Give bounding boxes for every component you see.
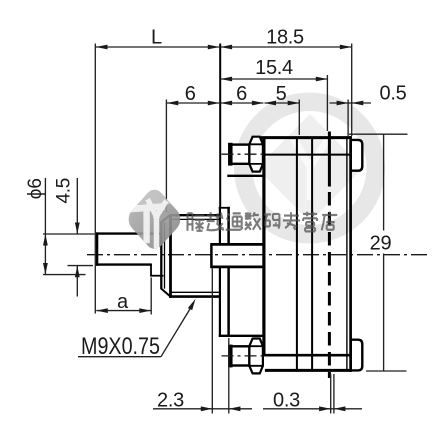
shaft boss band top <box>211 243 263 246</box>
dimension a line <box>96 310 151 312</box>
body inner top line <box>263 154 351 156</box>
bushing chamfer top <box>161 215 171 223</box>
extension line 18.5 right <box>351 44 353 137</box>
shaft full-dia bottom line <box>150 275 163 277</box>
dimension phi6 vertical line <box>44 178 46 275</box>
dimension 2.3 left segment <box>153 408 212 410</box>
svg-text:6: 6 <box>185 83 196 105</box>
dimension a arrows <box>96 308 108 313</box>
body internal wall 1 <box>296 137 298 371</box>
dimension 4.5 flat tick <box>68 265 94 267</box>
dimension 15.4 arrows <box>221 77 233 82</box>
mounting plate front face upper <box>219 207 221 244</box>
svg-text:M9X0.75: M9X0.75 <box>81 333 160 360</box>
mounting plate front face lower <box>219 268 221 337</box>
dimension 0.5 mid <box>348 102 352 104</box>
shaft flat step <box>150 264 152 277</box>
dimension 4.5 lower arrow (points up) <box>75 266 80 278</box>
watermark big diamond <box>257 114 363 222</box>
body thin line near back <box>346 137 348 371</box>
dimension 4.5 vertical upper segment <box>76 178 78 234</box>
dimension 29 vertical line lower <box>383 254 385 371</box>
svg-text:15.4: 15.4 <box>255 57 293 79</box>
frame upper flange below top bolt <box>227 175 263 177</box>
centerline bottom bolt <box>222 355 268 357</box>
body bottom edge <box>265 369 351 372</box>
dimension 0.5 left arrow (points right) <box>337 101 349 106</box>
dimension 6 first arrows <box>167 101 179 106</box>
extension line 2.3 right (plate back) <box>228 338 230 414</box>
extension line 6 first left <box>165 100 167 213</box>
dimension 5 line <box>265 102 300 104</box>
dimension 15.4 line <box>221 78 328 80</box>
dimension 4.5 upper arrow (points down) <box>75 223 80 235</box>
svg-text:2.3: 2.3 <box>157 389 184 411</box>
dimension phi6 text <box>25 178 46 199</box>
dimension 0.3 right segment <box>334 408 362 410</box>
extension line 29 bottom <box>366 370 407 372</box>
extension line 5 right <box>298 100 300 136</box>
rear cover top tab <box>351 140 363 171</box>
dimension 2.3 right segment <box>229 408 252 410</box>
bottom bolt hex facet lines <box>249 346 263 366</box>
dimension phi6 tick bottom <box>43 274 86 276</box>
shaft boss band bottom <box>211 265 263 268</box>
svg-text:29: 29 <box>370 233 392 255</box>
mounting plate back face upper <box>227 207 230 244</box>
bushing thread inner bottom <box>170 291 220 293</box>
dimension L arrows <box>96 45 108 50</box>
svg-text:18.5: 18.5 <box>266 27 304 49</box>
shaft boss band left face <box>210 243 213 268</box>
dimension 0.5 left segment <box>330 102 349 104</box>
top bolt hex facet lines <box>249 144 263 164</box>
dimension 2.3 left arrow (points right) <box>201 406 213 411</box>
dimension 2.3 right arrow (points left) <box>229 406 241 411</box>
dimension 2.3 mid <box>212 408 229 410</box>
body inner bottom line <box>260 354 351 357</box>
shaft left face <box>96 232 98 265</box>
watermark TY logo letters <box>131 202 165 247</box>
shaft top line <box>96 232 163 234</box>
dimension 4.5 text <box>54 178 75 204</box>
extension line 0.3 left <box>330 374 332 414</box>
svg-text:6: 6 <box>236 83 247 105</box>
front mounting face extension line (top) <box>219 44 221 209</box>
bushing tip face <box>160 222 162 289</box>
mounting plate back face lower <box>227 268 230 337</box>
bushing outer bottom <box>169 295 220 298</box>
mounting plate top cap <box>219 207 230 209</box>
body internal wall 2 <box>311 137 313 371</box>
rear cover bottom tab <box>351 340 363 371</box>
body front face <box>262 137 265 356</box>
body back edge <box>349 136 352 372</box>
bottom bolt hex <box>249 339 263 374</box>
dimension 5 arrows <box>265 101 277 106</box>
watermark big ring <box>243 102 376 235</box>
bushing outer top <box>169 214 220 216</box>
extension line a right <box>150 278 152 315</box>
dimension 0.3 left arrow (points right) <box>319 406 331 411</box>
extension line 15.4 right <box>326 75 328 131</box>
svg-text:a: a <box>117 291 129 313</box>
dimension 18.5 line <box>221 46 352 48</box>
svg-text:5: 5 <box>276 83 287 105</box>
svg-text:4.5: 4.5 <box>54 178 75 204</box>
M9X0.75 leader arrow <box>188 299 196 310</box>
bushing rear face vertical <box>169 214 172 298</box>
watermark chinese text (hand-drawn glyphs) <box>188 212 338 232</box>
centerline main axis <box>87 254 431 256</box>
mounting plate bottom cap / frame lower flange <box>219 335 264 337</box>
dimension phi6 arrows <box>43 234 48 246</box>
centerline top bolt <box>222 153 268 155</box>
dimension 6 first line <box>167 102 220 104</box>
top bolt head <box>230 145 249 164</box>
extension line 0.5 left <box>347 100 349 137</box>
dimension 18.5 arrows <box>221 45 233 50</box>
dimension 0.5 right segment <box>352 102 371 104</box>
extension line 0.3 right <box>333 374 335 414</box>
dimension 6 second arrows <box>221 101 233 106</box>
extension line left (shaft end) <box>94 44 96 314</box>
dimension L line <box>96 46 219 48</box>
dimension 6 second line <box>221 102 264 104</box>
dimension 0.3 left segment <box>263 408 330 410</box>
top bolt head left face <box>228 143 233 166</box>
M9X0.75 leader underline <box>78 356 161 358</box>
bushing thread inner top <box>170 218 220 220</box>
body top edge <box>261 136 351 139</box>
bottom bolt head <box>230 346 249 365</box>
M9X0.75 leader line <box>161 303 194 357</box>
extension line 2.3 left (boss face) <box>211 269 213 414</box>
bushing chamfer bottom <box>161 288 171 296</box>
dimension 0.3 mid <box>331 408 334 410</box>
dimension 0.5 right arrow (points left) <box>352 101 364 106</box>
bottom bolt head left face <box>228 345 233 368</box>
bushing tip thread runout line <box>164 222 166 288</box>
svg-text:L: L <box>151 27 162 49</box>
center terminal hidden dashed line <box>328 132 331 187</box>
dimension 4.5 vertical lower segment <box>76 266 78 297</box>
dimension 0.3 right arrow (points left) <box>334 406 346 411</box>
shaft flat line <box>96 263 152 265</box>
dimension 29 vertical line upper <box>383 134 385 230</box>
top bolt hex <box>249 137 263 172</box>
svg-text:0.5: 0.5 <box>380 83 407 105</box>
extension line 29 top <box>349 133 408 135</box>
svg-text:ϕ6: ϕ6 <box>25 178 46 199</box>
svg-text:0.3: 0.3 <box>273 389 300 411</box>
dimension phi6 tick top <box>43 233 95 235</box>
